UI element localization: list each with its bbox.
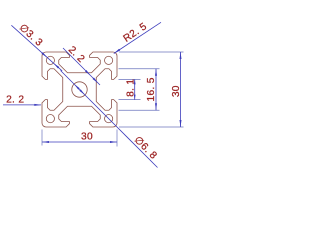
svg-text:8. 1: 8. 1	[126, 79, 137, 97]
svg-text:30: 30	[81, 131, 93, 142]
svg-text:16. 5: 16. 5	[146, 77, 157, 101]
svg-text:R2. 5: R2. 5	[122, 21, 150, 45]
right 30 extension lines	[119, 51, 184, 53]
top-right corner hole (diameter 3.3)	[105, 56, 113, 64]
16.5 extension lines	[119, 68, 160, 70]
aluminium extrusion profile outline	[42, 52, 117, 127]
corner radius R2.5 leader	[114, 22, 161, 53]
right 30 dimension line	[180, 52, 182, 127]
bottom 30 dimension line	[42, 141, 117, 143]
2.2 arrowheads	[85, 70, 91, 76]
center hole dia 6.8 dimension line	[61, 71, 158, 168]
svg-text:2. 2: 2. 2	[6, 94, 24, 105]
left 2.2 arrow	[33, 104, 41, 106]
center bore hole (diameter 6.8)	[72, 82, 87, 97]
svg-text:30: 30	[171, 85, 182, 97]
bottom-left corner hole (diameter 3.3)	[46, 115, 54, 123]
8.1 extension lines	[119, 78, 141, 80]
dia 3.3 arrowheads	[41, 52, 47, 57]
dia 6.8 arrowheads	[74, 84, 80, 90]
svg-text:∅3. 3: ∅3. 3	[17, 22, 45, 49]
bottom 30 extension lines	[41, 130, 43, 146]
svg-text:2. 2: 2. 2	[66, 44, 87, 65]
R2.5 arrowhead	[114, 49, 120, 54]
svg-text:∅6. 8: ∅6. 8	[132, 135, 159, 162]
leader line for corner hole diameter 3.3	[11, 25, 62, 71]
8.1 dimension line	[134, 79, 136, 99]
bottom-right corner hole (diameter 3.3)	[105, 115, 113, 123]
lip thickness 2.2 leader (left)	[3, 104, 33, 106]
wall thickness 2.2 leader (top)	[63, 48, 100, 85]
top-left corner hole (diameter 3.3)	[46, 56, 54, 64]
16.5 dimension line	[155, 69, 157, 111]
